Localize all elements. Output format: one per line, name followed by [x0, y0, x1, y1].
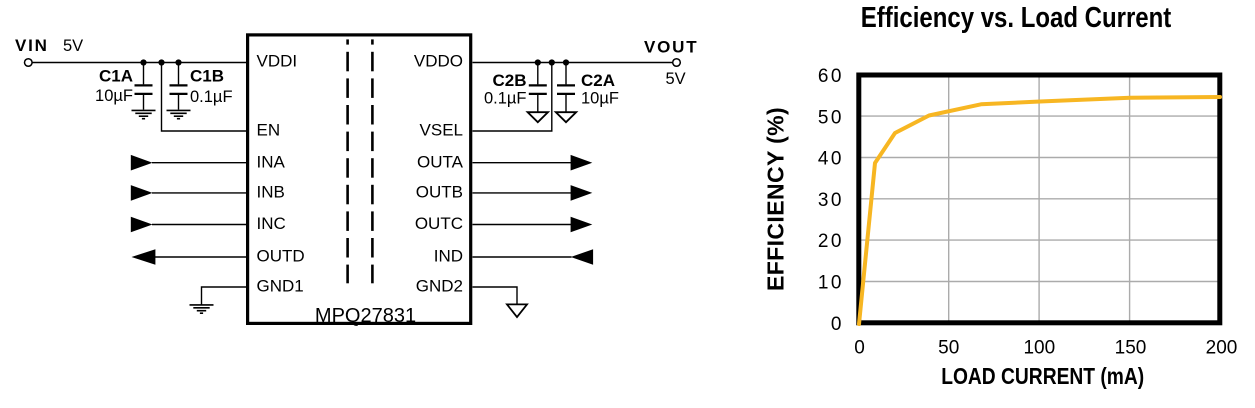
svg-text:OUTD: OUTD — [257, 247, 305, 266]
svg-text:OUTB: OUTB — [416, 183, 463, 202]
svg-text:OUTA: OUTA — [417, 153, 464, 172]
svg-text:40: 40 — [818, 149, 844, 170]
svg-text:IND: IND — [434, 247, 463, 266]
svg-text:GND2: GND2 — [416, 277, 463, 296]
svg-text:VDDO: VDDO — [414, 52, 463, 71]
svg-text:5V: 5V — [63, 37, 83, 55]
svg-text:100: 100 — [1023, 338, 1055, 359]
svg-text:INA: INA — [257, 153, 286, 172]
svg-text:5V: 5V — [666, 70, 686, 88]
svg-text:0.1µF: 0.1µF — [190, 88, 233, 106]
svg-text:200: 200 — [1206, 338, 1238, 359]
svg-text:10µF: 10µF — [581, 90, 619, 108]
svg-text:60: 60 — [818, 66, 844, 87]
svg-text:MPQ27831: MPQ27831 — [315, 305, 416, 327]
svg-text:50: 50 — [938, 338, 959, 359]
svg-text:50: 50 — [818, 107, 844, 128]
svg-text:0.1µF: 0.1µF — [484, 90, 527, 108]
svg-text:GND1: GND1 — [257, 277, 304, 296]
svg-text:EN: EN — [257, 121, 281, 140]
svg-text:LOAD CURRENT (mA): LOAD CURRENT (mA) — [941, 364, 1144, 389]
svg-text:VSEL: VSEL — [420, 121, 463, 140]
svg-text:VOUT: VOUT — [644, 38, 698, 57]
svg-text:150: 150 — [1115, 338, 1147, 359]
svg-text:OUTC: OUTC — [415, 214, 463, 233]
svg-text:C1A: C1A — [99, 67, 133, 86]
svg-text:VIN: VIN — [15, 36, 49, 55]
svg-text:0: 0 — [831, 314, 842, 335]
svg-text:C2A: C2A — [581, 71, 615, 90]
svg-text:VDDI: VDDI — [257, 52, 298, 71]
svg-text:0: 0 — [854, 338, 865, 359]
svg-text:INB: INB — [257, 183, 285, 202]
svg-text:C2B: C2B — [492, 71, 526, 90]
svg-text:10µF: 10µF — [95, 87, 133, 105]
svg-text:10: 10 — [818, 273, 844, 294]
svg-text:Efficiency vs. Load Current: Efficiency vs. Load Current — [861, 1, 1172, 34]
svg-text:30: 30 — [818, 190, 844, 211]
svg-text:C1B: C1B — [190, 67, 224, 86]
svg-text:20: 20 — [818, 231, 844, 252]
svg-text:INC: INC — [257, 214, 286, 233]
svg-text:EFFICIENCY (%): EFFICIENCY (%) — [763, 107, 789, 291]
